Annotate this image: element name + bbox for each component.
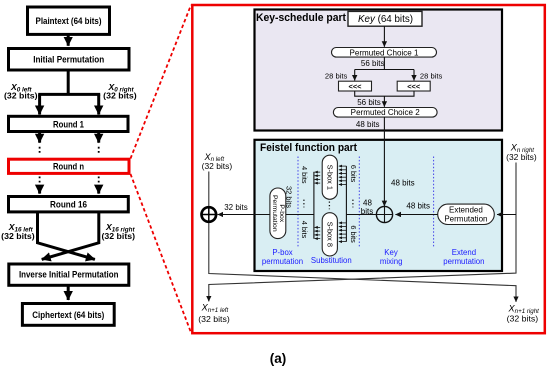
svg-text:48 bits: 48 bits	[356, 120, 380, 129]
wire PC1 split bar	[355, 57, 414, 69]
stadium S-box 8	[322, 213, 337, 256]
wire IIP to Ciphertext	[67, 285, 70, 300]
box Round 16	[9, 197, 129, 212]
wire Plaintext to Initial Permutation	[67, 34, 70, 45]
svg-text:Round 1: Round 1	[53, 120, 85, 131]
stadium P-box Permutation	[270, 188, 286, 239]
wire dotted continuation left below Round n	[39, 177, 41, 185]
svg-text:<<<: <<<	[349, 82, 363, 91]
box Initial Permutation	[9, 49, 130, 71]
svg-text:(32 bits): (32 bits)	[507, 315, 539, 324]
wire dotted continuation right below Round n	[98, 177, 100, 185]
svg-text:Round 16: Round 16	[50, 200, 87, 211]
box Key (64 bits)	[348, 11, 422, 26]
svg-text:6 bits: 6 bits	[349, 225, 358, 243]
svg-text:permutation: permutation	[262, 257, 303, 266]
svg-text:Permuted Choice 1: Permuted Choice 1	[350, 48, 420, 57]
wire split right arrow into Round 1	[97, 94, 100, 114]
svg-text:32 bits: 32 bits	[224, 203, 248, 212]
wire bus to key-mixing xor	[346, 214, 376, 216]
box Round n (red highlighted)	[9, 159, 130, 173]
svg-text:(32 bits): (32 bits)	[1, 231, 35, 241]
box Inverse Initial Permutation	[9, 264, 129, 285]
S-box1 input arrows 6 bits	[339, 166, 347, 184]
svg-text:Key: Key	[384, 248, 398, 257]
svg-text:P-box: P-box	[272, 248, 292, 257]
svg-text:48 bits: 48 bits	[406, 201, 430, 210]
wire key 48-bit line from PC2 into key-mixing xor	[383, 117, 385, 206]
svg-text:Permutation: Permutation	[271, 195, 278, 232]
wire dotted continuation left above Round n	[39, 147, 41, 155]
svg-text:(32 bits): (32 bits)	[198, 315, 230, 324]
dots between S-boxes	[328, 202, 330, 210]
stadium Permuted Choice 1	[332, 48, 437, 58]
wire Xn-right branch into Extended Permutation	[497, 214, 516, 216]
S-box8 output arrows 4 bits	[315, 227, 321, 238]
feistel function part box	[255, 140, 503, 271]
wire P-box to S-box bus	[286, 214, 314, 216]
svg-text:Feistel function part: Feistel function part	[260, 142, 357, 154]
blue dotted separator Substitution/Key mixing	[358, 157, 360, 249]
svg-text:56 bits: 56 bits	[357, 98, 381, 107]
box left shift <<<	[339, 81, 372, 91]
svg-text:Extend: Extend	[452, 248, 476, 257]
stadium Permuted Choice 2	[333, 108, 437, 118]
svg-text:48 bits: 48 bits	[391, 178, 415, 187]
svg-text:Plaintext (64 bits): Plaintext (64 bits)	[36, 16, 102, 27]
wire Round16 right output crossing to left	[42, 211, 99, 259]
wire Round1 out right arrow	[97, 132, 100, 143]
svg-text:<<<: <<<	[407, 82, 421, 91]
svg-text:bits: bits	[361, 207, 373, 216]
stadium S-box 1	[322, 155, 337, 199]
wire Round1 out left arrow	[38, 132, 41, 143]
svg-text:28 bits: 28 bits	[325, 71, 348, 80]
svg-text:(32 bits): (32 bits)	[103, 91, 137, 101]
wire Xn-right line down and crossing to Xn+1 left	[209, 163, 516, 302]
svg-text:S-box 1: S-box 1	[325, 165, 334, 190]
wire Xn-left line down through xor and crossing to Xn+1 right	[209, 172, 516, 302]
svg-text:Ciphertext (64 bits): Ciphertext (64 bits)	[32, 310, 104, 321]
svg-text:Key-schedule part: Key-schedule part	[256, 12, 346, 24]
svg-text:Permutation: Permutation	[444, 215, 487, 224]
stadium Extended Permutation	[438, 204, 495, 224]
S-box8 input arrows 6 bits	[339, 223, 347, 242]
svg-text:Inverse Initial Permutation: Inverse Initial Permutation	[19, 270, 119, 281]
svg-text:(32 bits): (32 bits)	[102, 231, 136, 241]
svg-text:mixing: mixing	[380, 257, 403, 266]
svg-text:Permuted Choice 2: Permuted Choice 2	[351, 108, 421, 117]
wire left 32-bit bus	[313, 172, 315, 239]
wire dotted continuation right above Round n	[98, 147, 100, 155]
svg-text:Key (64 bits): Key (64 bits)	[358, 14, 413, 25]
svg-text:Initial Permutation: Initial Permutation	[33, 55, 104, 66]
wire Key to PC1	[383, 26, 385, 47]
blue dotted separator Key mixing/Extend permutation	[433, 157, 435, 249]
box right shift <<<	[397, 81, 430, 91]
dots between 4-bit labels	[303, 200, 305, 208]
wire arrow into left shift box	[354, 70, 356, 81]
svg-text:(a): (a)	[270, 351, 287, 366]
svg-text:(32 bits): (32 bits)	[506, 153, 537, 162]
wire arrow into right shift box	[413, 70, 415, 81]
svg-text:56 bits: 56 bits	[361, 59, 385, 68]
wire IP output split bar	[38, 70, 100, 94]
box Round 1	[9, 116, 129, 131]
wire arrow into Round 16 left	[38, 185, 41, 194]
wire arrow into Round 16 right	[97, 185, 100, 194]
wire shift boxes merge into PC2	[355, 91, 414, 96]
red zoom detail box	[192, 5, 545, 333]
red dashed zoom connector bottom	[131, 174, 192, 333]
svg-text:4 bits: 4 bits	[300, 166, 309, 184]
S-box1 output arrows 4 bits	[315, 172, 321, 183]
key schedule part box	[255, 10, 503, 131]
wire split left arrow into Round 1	[38, 94, 41, 114]
svg-text:P-box: P-box	[278, 204, 285, 222]
svg-text:32 bits: 32 bits	[284, 186, 293, 208]
blue dotted separator P-box/Substitution	[297, 157, 299, 249]
wire Extended Permutation output arrow into xor	[395, 214, 437, 216]
svg-text:6 bits: 6 bits	[349, 165, 358, 183]
svg-text:(32 bits): (32 bits)	[202, 162, 233, 171]
svg-text:Substitution: Substitution	[311, 256, 352, 265]
xor U-left (32-bit xor)	[202, 207, 217, 222]
svg-text:permutation: permutation	[443, 257, 484, 266]
wire P-box output arrow into left xor	[218, 214, 270, 216]
dots between 6-bit labels	[352, 200, 354, 208]
wire right 48-bit bus	[345, 166, 347, 242]
svg-text:28 bits: 28 bits	[420, 71, 443, 80]
red dashed zoom connector top	[131, 5, 192, 159]
box Ciphertext (64 bits)	[22, 304, 114, 326]
svg-text:Round n: Round n	[53, 161, 84, 172]
box Plaintext (64 bits)	[28, 7, 110, 34]
svg-text:(32 bits): (32 bits)	[4, 91, 38, 101]
svg-text:S-box 8: S-box 8	[325, 222, 334, 247]
wire Round16 left output crossing to right	[38, 211, 95, 259]
xor key mixing	[376, 206, 392, 222]
svg-text:4 bits: 4 bits	[300, 221, 309, 239]
svg-text:Extended: Extended	[449, 206, 483, 215]
